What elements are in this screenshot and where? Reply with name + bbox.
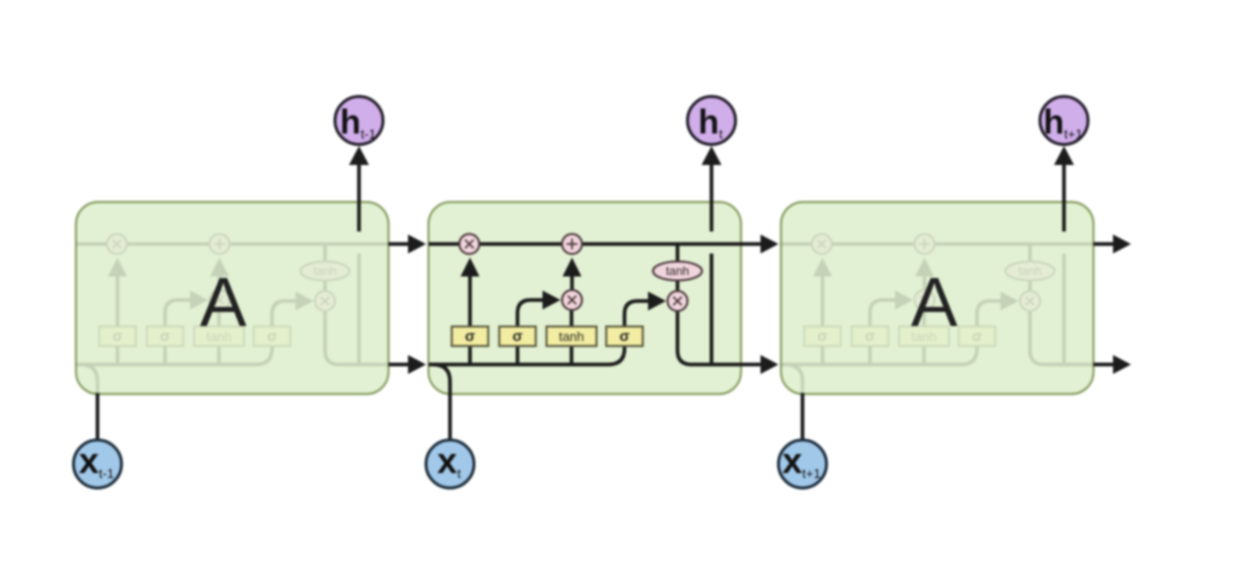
wire: new hidden branch rising to h output (below crossing gap) bbox=[357, 254, 361, 365]
svg-text:A: A bbox=[911, 263, 958, 341]
wire: output gate sigma curving right into output multiply bbox=[625, 301, 650, 327]
gate: output sigma bbox=[959, 327, 996, 347]
svg-text:tanh: tanh bbox=[1018, 264, 1041, 278]
gate: output sigma bbox=[254, 327, 291, 347]
wire: forget gate sigma up to forget multiply bbox=[468, 276, 472, 327]
svg-text:σ: σ bbox=[972, 328, 982, 345]
wire: inter-cell connector arrow bbox=[1094, 363, 1114, 367]
op: output pointwise multiply bbox=[668, 291, 688, 311]
svg-text:σ: σ bbox=[619, 328, 629, 345]
wire: h output arrow above cell bbox=[357, 164, 361, 232]
wire: x input merging into hidden line bbox=[433, 365, 450, 395]
wire: inter-cell connector arrow bbox=[741, 242, 761, 246]
gate: forget sigma bbox=[99, 327, 136, 347]
wire: cell-state line C bbox=[76, 242, 389, 246]
node x_t bbox=[426, 440, 474, 488]
op: forget pointwise multiply bbox=[459, 234, 479, 254]
wire: cell state branch down through tanh bbox=[323, 244, 327, 262]
svg-text:tanh: tanh bbox=[666, 264, 689, 278]
wire: output gate sigma curving right into output multiply bbox=[272, 301, 297, 327]
op: output pointwise multiply bbox=[1020, 291, 1040, 311]
wire: hidden-state line h (left part, curls up into output gate) bbox=[781, 346, 977, 365]
svg-text:σ: σ bbox=[160, 328, 170, 345]
wire: cell state branch down through tanh bbox=[1028, 244, 1032, 262]
wire: taps from hidden line up to the four gates bbox=[470, 346, 572, 365]
wire: x input stem below cell bbox=[801, 393, 805, 439]
wire: inter-cell connector arrow bbox=[389, 242, 409, 246]
node x_t+1 bbox=[779, 440, 827, 488]
node h_t-1 bbox=[335, 97, 383, 145]
wire: hidden-state line h (left part, curls up into output gate) bbox=[76, 346, 272, 365]
op: forget pointwise multiply bbox=[812, 234, 832, 254]
wire: hidden-state line h (left part, curls up into output gate) bbox=[429, 346, 625, 365]
wire: taps from hidden line up to the four gates bbox=[823, 346, 925, 365]
wire: output gate sigma curving right into output multiply bbox=[977, 301, 1002, 327]
gate: candidate tanh bbox=[547, 327, 597, 347]
gate: input sigma bbox=[852, 327, 889, 347]
wire: inter-cell connector arrow bbox=[741, 363, 761, 367]
wire: new hidden branch rising to h output (below crossing gap) bbox=[1062, 254, 1066, 365]
wire: x input merging into hidden line bbox=[81, 365, 98, 395]
gate: input sigma bbox=[499, 327, 536, 347]
op: tanh oval bbox=[1006, 262, 1055, 281]
wire: candidate tanh box up into input multiply bbox=[570, 310, 574, 327]
wire: output of pointwise multiply down to new hidden line bbox=[1030, 311, 1094, 365]
wire: input multiply up into pointwise add bbox=[923, 276, 927, 290]
wire: h output arrow above cell bbox=[1062, 164, 1066, 232]
wire: forget gate sigma up to forget multiply bbox=[821, 276, 825, 327]
wire: input gate sigma curving right into input multiply bbox=[870, 300, 897, 327]
wire: taps from hidden line up to the four gates bbox=[118, 346, 220, 365]
wire: input gate sigma curving right into input multiply bbox=[518, 300, 545, 327]
wire: candidate tanh box up into input multiply bbox=[217, 310, 221, 327]
gate: candidate tanh bbox=[899, 327, 949, 347]
node h_t bbox=[688, 97, 736, 145]
wire: h output arrow above cell bbox=[710, 164, 714, 232]
wire: input multiply up into pointwise add bbox=[218, 276, 222, 290]
op: input pointwise multiply bbox=[210, 290, 230, 310]
svg-text:tanh: tanh bbox=[559, 329, 584, 344]
wire: output of pointwise multiply down to new hidden line bbox=[325, 311, 389, 365]
gate: candidate tanh bbox=[194, 327, 244, 347]
op: tanh oval bbox=[301, 262, 350, 281]
wire: cell state branch down through tanh bbox=[676, 244, 680, 262]
svg-text:σ: σ bbox=[112, 328, 122, 345]
op: output pointwise multiply bbox=[315, 291, 335, 311]
gate: forget sigma bbox=[804, 327, 841, 347]
gate: output sigma bbox=[606, 327, 643, 347]
LSTM cell body (current, t) bbox=[429, 202, 742, 394]
wire: output of pointwise multiply down to new hidden line bbox=[678, 311, 742, 365]
svg-text:σ: σ bbox=[465, 328, 475, 345]
wire: inter-cell connector arrow bbox=[1094, 242, 1114, 246]
op: pointwise add bbox=[210, 234, 230, 254]
wire: x input stem below cell bbox=[448, 393, 452, 439]
node h_t+1 bbox=[1040, 97, 1088, 145]
op: pointwise add bbox=[915, 234, 935, 254]
wire: input gate sigma curving right into input multiply bbox=[165, 300, 192, 327]
node x_t-1 bbox=[74, 440, 122, 488]
svg-text:tanh: tanh bbox=[313, 264, 336, 278]
svg-text:σ: σ bbox=[267, 328, 277, 345]
LSTM cell body (previous, t-1) bbox=[76, 202, 389, 394]
wire: inter-cell connector arrow bbox=[389, 363, 409, 367]
wire: cell-state line C bbox=[781, 242, 1094, 246]
wire: cell-state line C bbox=[429, 242, 742, 246]
wire: new hidden branch rising to h output (below crossing gap) bbox=[710, 254, 714, 365]
svg-text:σ: σ bbox=[865, 328, 875, 345]
wire: input multiply up into pointwise add bbox=[570, 276, 574, 290]
LSTM cell body (next, t+1) bbox=[781, 202, 1094, 394]
op: tanh oval bbox=[653, 262, 702, 281]
svg-text:A: A bbox=[200, 263, 247, 341]
op: input pointwise multiply bbox=[562, 290, 582, 310]
wire: x input stem below cell bbox=[96, 393, 100, 439]
op: pointwise add bbox=[562, 234, 582, 254]
gate: input sigma bbox=[147, 327, 184, 347]
wire: forget gate sigma up to forget multiply bbox=[116, 276, 120, 327]
svg-text:σ: σ bbox=[817, 328, 827, 345]
svg-text:σ: σ bbox=[512, 328, 522, 345]
gate: forget sigma bbox=[452, 327, 489, 347]
wire: candidate tanh box up into input multiply bbox=[922, 310, 926, 327]
op: forget pointwise multiply bbox=[107, 234, 127, 254]
op: input pointwise multiply bbox=[915, 290, 935, 310]
wire: x input merging into hidden line bbox=[786, 365, 803, 395]
